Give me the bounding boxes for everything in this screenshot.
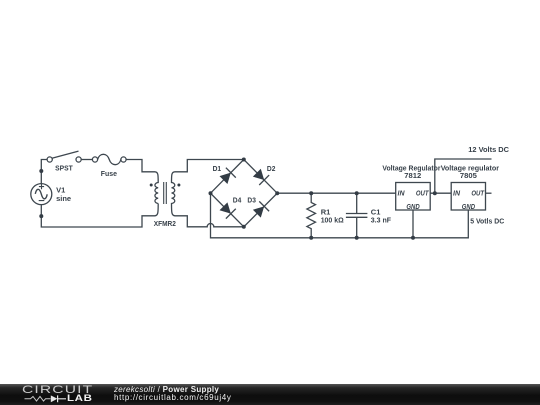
svg-text:GND: GND [406, 204, 419, 211]
svg-text:XFMR2: XFMR2 [154, 219, 176, 228]
svg-text:SPST: SPST [55, 164, 73, 173]
svg-text:Fuse: Fuse [101, 169, 117, 178]
svg-text:OUT: OUT [416, 191, 429, 198]
svg-text:3.3 nF: 3.3 nF [371, 216, 392, 225]
svg-text:D3: D3 [247, 196, 256, 205]
svg-text:IN: IN [453, 191, 461, 198]
svg-text:sine: sine [56, 194, 71, 203]
svg-text:D2: D2 [267, 164, 276, 173]
svg-text:100 kΩ: 100 kΩ [321, 216, 344, 225]
svg-text:7805: 7805 [460, 171, 477, 180]
svg-text:IN: IN [398, 191, 406, 198]
svg-text:7812: 7812 [404, 171, 421, 180]
svg-text:OUT: OUT [471, 191, 484, 198]
svg-text:D1: D1 [213, 164, 222, 173]
svg-text:12 Volts DC: 12 Volts DC [468, 145, 509, 154]
svg-text:GND: GND [462, 204, 475, 211]
svg-text:5 Votls DC: 5 Votls DC [470, 216, 505, 225]
svg-text:D4: D4 [233, 196, 242, 205]
